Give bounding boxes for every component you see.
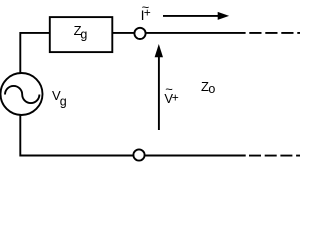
svg-text:g: g: [80, 27, 87, 41]
svg-text:~: ~: [165, 82, 173, 97]
svg-text:g: g: [60, 94, 67, 108]
svg-text:~: ~: [142, 0, 150, 14]
svg-text:o: o: [208, 82, 215, 96]
